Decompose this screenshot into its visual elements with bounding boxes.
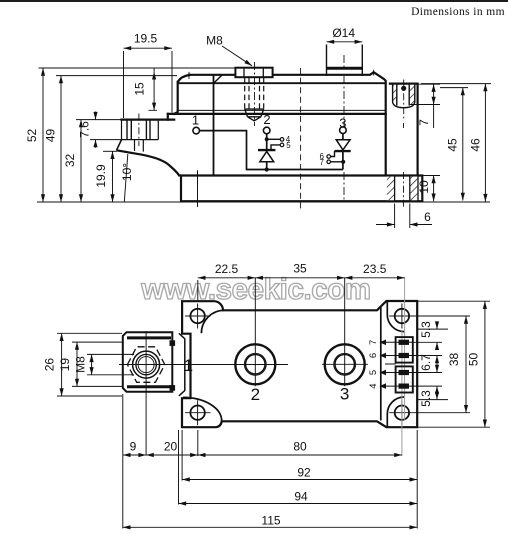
10 deg reference line [124,154,128,202]
svg-text:5: 5 [286,141,291,150]
svg-text:6: 6 [424,210,431,224]
wire: pin6 to gate of Q3 [331,151,335,156]
terminal bracket top (32 level) [122,118,175,120]
dim 32 [80,120,82,202]
chamfer at interior edge [214,75,223,84]
wire: pin5 to gate of thyristor Q2 [271,145,280,150]
svg-text:92: 92 [297,466,311,480]
corner fillet TR [387,302,404,332]
svg-text:19.9: 19.9 [94,164,108,188]
svg-text:10°: 10° [120,163,134,181]
leader M8 [222,46,252,66]
bottom ext verticals [123,394,417,529]
thyristor Q2 triangle [260,151,274,161]
svg-text:38: 38 [447,353,461,367]
pin 7 [327,160,331,164]
svg-text:6.7: 6.7 [419,354,433,371]
mounting tower right [390,84,418,176]
mounting hole cross-section (top right) [393,80,415,122]
side terminal hex nut (side view) [122,114,159,152]
gate connector block upper (pins 7,6) [396,337,413,363]
dim 115 [123,526,417,528]
corner fillet BR [387,397,404,427]
housing top surface [189,72,386,175]
hex nut (top view, dashed) [127,347,164,383]
dim 52 [42,68,44,202]
dim 46 [484,84,486,202]
wire: terminal3 to Q3 [342,134,344,140]
svg-text:80: 80 [293,440,307,454]
dim 15 [153,72,155,111]
terminal 2 (top view) [235,344,275,384]
svg-text:32: 32 [63,154,77,168]
svg-text:Ø14: Ø14 [332,26,355,40]
dim 10 [433,176,435,202]
module body outline [182,301,417,427]
wire: pin7 to cathode node [331,161,344,163]
thyristor Q3 cathode bar [335,150,351,152]
left dims 26 / 19 / M8 [61,333,63,396]
svg-text:46: 46 [469,138,483,152]
clip bottom [170,385,176,391]
wire: terminal1 to common rail [200,131,344,170]
svg-text:9: 9 [130,440,137,454]
bracket folded edges [127,338,171,387]
svg-text:5.3: 5.3 [419,321,433,338]
mounting hole BL [190,406,204,420]
svg-text:2: 2 [263,112,270,127]
left raised block top edge [180,82,386,84]
hole centre ext (grey) [401,330,403,456]
pin 5 tab [380,370,413,376]
ext line 52 level [39,67,236,69]
svg-text:52: 52 [25,129,39,143]
corner tangent tick [188,72,190,78]
svg-text:35: 35 [293,262,307,276]
pin 4 [280,138,284,142]
nut facet lines [244,68,263,76]
M8 stud [245,77,264,109]
svg-text:19: 19 [58,358,72,372]
svg-text:7: 7 [319,158,324,167]
pin 5 [280,143,284,147]
svg-text:7: 7 [368,340,379,345]
top row 22.5 / 35 / 23.5 [198,277,256,279]
terminal 3 (top view) [325,344,365,384]
dim 6 [395,204,410,229]
bottom row 9 / 20 / 80 [123,454,146,456]
svg-text:2: 2 [251,385,260,404]
housing top-left rounded corner [178,75,190,82]
dim 49 [60,76,62,202]
cylinder centerline [343,55,345,200]
svg-text:6: 6 [368,353,379,358]
body side face oblique edges [179,333,185,396]
boss peak tick [373,70,375,76]
pin 6 tab [380,353,413,359]
svg-text:45: 45 [446,138,460,152]
node: pin7 junction [341,160,345,164]
dim 92 [182,479,417,481]
dim 19.9 [112,151,114,202]
terminal 1 [193,127,200,134]
pin 6 [327,155,331,159]
left mounting hole centerline (side view) [197,170,199,207]
svg-text:19.5: 19.5 [134,32,158,46]
raised surface corner arc TL [201,310,224,333]
bolt dot [401,86,406,91]
housing face parting line [168,113,386,115]
svg-text:94: 94 [294,490,308,504]
svg-text:3: 3 [339,115,346,130]
mounting hole TR [395,309,409,323]
ext line 49 level [56,75,177,77]
svg-text:1: 1 [192,113,199,128]
module center dashed line [300,68,302,211]
M8 washer plate [235,68,272,78]
dim 7.6 [95,112,97,120]
side terminal plate (left) [123,332,173,392]
nut circles [133,351,160,378]
svg-text:3: 3 [340,385,349,404]
wire to pin 4 [267,138,281,140]
svg-text:115: 115 [261,514,280,528]
svg-text:50: 50 [467,353,481,367]
svg-text:M8: M8 [206,34,223,48]
wire: terminal2 down [266,134,268,150]
pin 7 tab [380,340,413,346]
svg-text:4: 4 [368,383,379,388]
D14 cylinder [327,45,363,77]
interior vertical section line [213,75,215,175]
M8 stud chamfered tip [245,109,264,121]
svg-text:M8: M8 [74,356,88,373]
thyristor Q2 cathode bar [258,149,275,151]
top page rule [0,0,508,2]
housing left edge with notch [168,82,178,120]
baseplate hatched right end [387,177,395,201]
slot edges in baseplate [395,176,418,202]
svg-text:23.5: 23.5 [363,262,387,276]
svg-text:7: 7 [417,119,431,126]
dim D14 [327,41,363,43]
svg-text:20: 20 [164,440,178,454]
node: rail junction [265,167,269,171]
gate connector block lower (pins 5,4) [396,366,413,392]
svg-text:15: 15 [133,82,147,96]
connector bay inner edge [380,308,382,421]
ledge between connector blocks [385,363,396,365]
baseplate [181,176,422,202]
terminal support sloped bottom [117,140,122,151]
M8 stud centerline [254,62,256,126]
dim 19.5 [124,47,173,49]
clip top [170,340,176,346]
dim 45 [462,88,464,201]
thyristor Q3 triangle [336,140,350,150]
terminal 2 [263,127,270,134]
wire: Q2 anode to rail [266,162,268,170]
svg-text:26: 26 [43,358,57,372]
svg-text:10: 10 [417,180,431,194]
baseline [37,201,490,203]
node: aux cathode junction [265,137,269,141]
svg-text:7.6: 7.6 [78,121,92,138]
mounting hole TL [190,309,204,323]
svg-text:5: 5 [368,370,379,375]
terminal 3 [340,127,347,134]
svg-text:5.3: 5.3 [419,390,433,407]
svg-text:49: 49 [44,129,58,143]
nut centerlines [145,331,147,456]
dim 94 [179,503,418,505]
right dims 5.3/6.7/5.3/38/50 [413,342,442,386]
cylinder top face (thick) [327,67,363,70]
centerlines terminals [119,363,368,365]
svg-text:Dimensions in mm: Dimensions in mm [411,6,505,18]
raised surface corner arc BL [183,397,222,421]
wire: Q3 cathode down to rail [342,151,344,169]
dim 7 [433,84,435,104]
pin 4 tab [380,383,413,389]
mounting hole BR [395,406,409,420]
svg-text:22.5: 22.5 [215,262,239,276]
housing face upper thin line [177,109,385,111]
